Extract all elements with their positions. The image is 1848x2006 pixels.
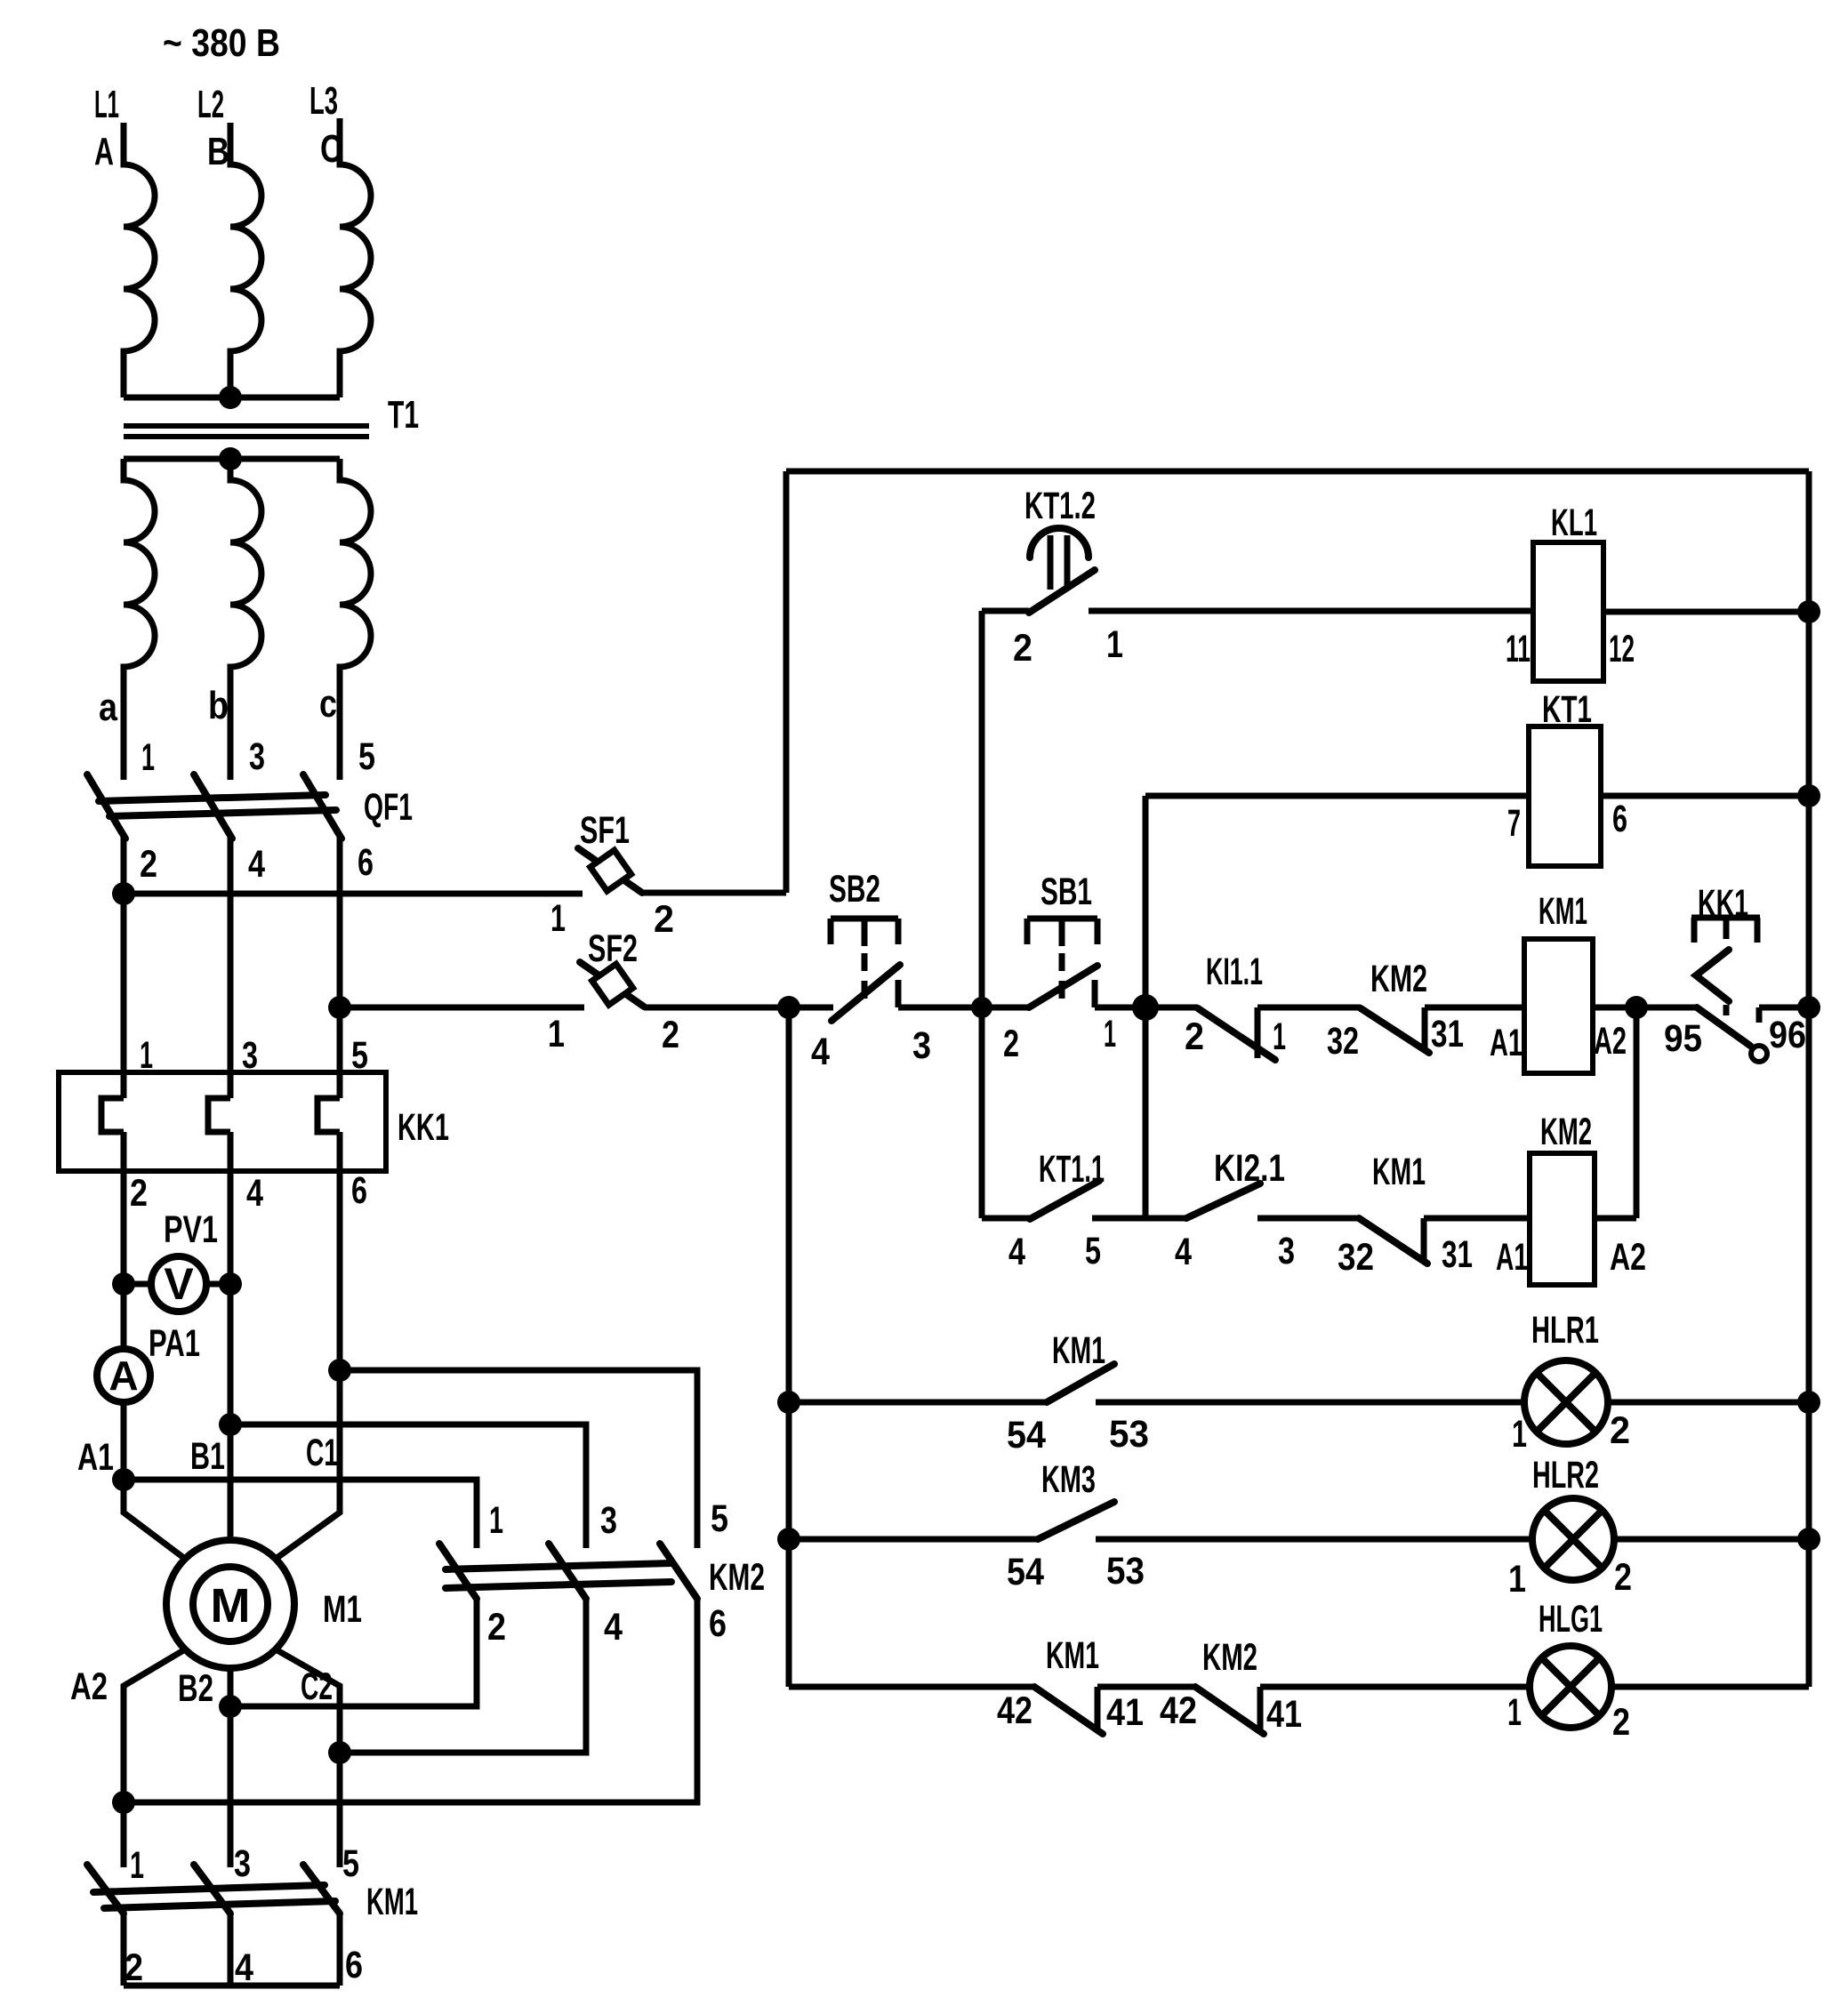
- junction SF2 / lamp rail: [777, 996, 800, 1019]
- svg-text:1: 1: [1512, 1413, 1527, 1456]
- svg-text:L3: L3: [309, 79, 338, 123]
- svg-text:2: 2: [487, 1606, 506, 1649]
- svg-text:2: 2: [1185, 1015, 1204, 1058]
- contactor coil KM1: [1490, 890, 1697, 1073]
- svg-text:3: 3: [234, 1842, 251, 1885]
- wire lamp rail: [786, 1007, 792, 1687]
- node c: [319, 682, 337, 726]
- svg-text:A: A: [94, 130, 114, 173]
- svg-text:54: 54: [1007, 1414, 1046, 1456]
- svg-text:KM2: KM2: [709, 1556, 765, 1599]
- svg-text:A: A: [108, 1352, 138, 1399]
- svg-text:1: 1: [1507, 1691, 1522, 1734]
- svg-text:2: 2: [654, 898, 674, 941]
- svg-text:KM2: KM2: [1540, 1111, 1592, 1153]
- svg-text:KM1: KM1: [1046, 1634, 1099, 1677]
- wire C1 to KM2 pole3 top: [340, 1370, 697, 1548]
- svg-text:6: 6: [351, 1169, 367, 1212]
- node a: [99, 686, 117, 729]
- node b: [208, 684, 229, 727]
- svg-text:A2: A2: [70, 1665, 108, 1708]
- svg-text:L2: L2: [197, 83, 224, 126]
- svg-text:41: 41: [1266, 1693, 1302, 1736]
- pushbutton SB1: [1003, 871, 1198, 1065]
- junction QF1 pole3 / SF2 tap: [328, 996, 351, 1019]
- svg-text:1: 1: [1104, 1013, 1116, 1055]
- switch SF1: [124, 809, 786, 941]
- svg-text:KM2: KM2: [1370, 958, 1427, 1000]
- auxiliary contact KM2 NC (HLG1): [1160, 1636, 1530, 1736]
- svg-text:5: 5: [358, 735, 375, 778]
- svg-text:B2: B2: [178, 1667, 213, 1710]
- junction lamp rail / HLR2 row: [777, 1528, 800, 1551]
- svg-text:KM1: KM1: [1372, 1151, 1426, 1193]
- svg-text:A1: A1: [1490, 1022, 1523, 1064]
- wire phase B QF1 to KK1: [228, 838, 234, 1098]
- svg-text:KM1: KM1: [366, 1881, 418, 1923]
- junction KT1 / right rail: [1797, 784, 1820, 807]
- svg-text:A2: A2: [1610, 1236, 1646, 1279]
- svg-text:95: 95: [1664, 1017, 1702, 1060]
- svg-text:KI1.1: KI1.1: [1206, 951, 1263, 993]
- svg-text:SB2: SB2: [829, 868, 880, 911]
- svg-text:A2: A2: [1594, 1020, 1627, 1063]
- svg-text:C1: C1: [306, 1432, 338, 1474]
- junction SB wire / KT1.2 vertical: [971, 997, 992, 1018]
- transformer T1 secondary winding phase c: [340, 459, 371, 780]
- pushbutton SB2: [811, 868, 1030, 1073]
- svg-text:3: 3: [249, 735, 265, 778]
- svg-text:C2: C2: [301, 1665, 333, 1708]
- svg-text:KM2: KM2: [1202, 1636, 1257, 1679]
- node A2: [70, 1665, 108, 1708]
- wire top bus: [786, 469, 1809, 475]
- junction SB1 / KT1 vertical: [1132, 994, 1159, 1021]
- thermal contact KK1 NC: [1664, 882, 1809, 1062]
- thermal overload relay KK1: [59, 1034, 449, 1215]
- wire right rail: [1806, 471, 1812, 1687]
- svg-text:42: 42: [1160, 1689, 1197, 1732]
- svg-text:4: 4: [604, 1606, 623, 1649]
- svg-text:2: 2: [662, 1014, 679, 1056]
- label 380V supply: [163, 21, 280, 65]
- svg-text:6: 6: [358, 841, 374, 884]
- wire phase C KK1 down: [337, 1132, 343, 1513]
- auxiliary contact KM1 NC (HLG1): [997, 1634, 1195, 1734]
- svg-text:KL1: KL1: [1551, 501, 1597, 544]
- svg-text:6: 6: [709, 1602, 727, 1645]
- svg-text:4: 4: [246, 1172, 263, 1215]
- junction QF1 pole1 / SF1 tap: [112, 882, 135, 905]
- svg-text:2: 2: [130, 1172, 148, 1215]
- svg-text:b: b: [208, 684, 229, 727]
- svg-text:KI2.1: KI2.1: [1214, 1147, 1285, 1190]
- svg-text:4: 4: [811, 1031, 830, 1073]
- svg-text:2: 2: [1003, 1023, 1019, 1065]
- svg-text:5: 5: [1085, 1230, 1101, 1272]
- junction voltmeter / phase B: [219, 1272, 242, 1296]
- motor M1: [166, 1540, 362, 1668]
- ammeter PA1: [97, 1322, 200, 1402]
- svg-text:53: 53: [1106, 1550, 1145, 1593]
- wire KT1 left vertical: [1143, 796, 1149, 1218]
- junction KK1 / right rail: [1797, 996, 1820, 1019]
- svg-text:11: 11: [1506, 628, 1531, 670]
- lamp HLR1: [1512, 1309, 1809, 1456]
- svg-text:a: a: [99, 686, 117, 729]
- svg-text:M: M: [211, 1579, 251, 1633]
- svg-text:L1: L1: [94, 83, 119, 126]
- wire phase A ammeter to motor: [124, 1402, 185, 1559]
- junction A2 / KM2 return: [112, 1791, 135, 1814]
- svg-text:T1: T1: [388, 393, 419, 437]
- junction secondary bus / phase b: [219, 447, 242, 470]
- node A1: [77, 1436, 135, 1491]
- svg-text:2: 2: [1612, 1701, 1630, 1744]
- node C2: [301, 1665, 351, 1764]
- contactor KM1 main contacts: [87, 1842, 418, 1989]
- circuit breaker QF1: [87, 735, 413, 886]
- svg-text:32: 32: [1338, 1236, 1374, 1279]
- wire phase A KK1 to ammeter: [121, 1132, 127, 1346]
- svg-text:1: 1: [1273, 1015, 1286, 1058]
- svg-text:1: 1: [130, 1844, 144, 1887]
- wire KM2 coil riser: [1634, 1007, 1640, 1218]
- svg-text:1: 1: [1106, 623, 1123, 666]
- svg-text:HLR1: HLR1: [1531, 1309, 1599, 1352]
- svg-text:31: 31: [1442, 1233, 1473, 1276]
- svg-text:3: 3: [912, 1024, 931, 1067]
- svg-text:B: B: [207, 130, 229, 173]
- wire motor lower-left stub A2: [124, 1649, 185, 1867]
- svg-text:SF1: SF1: [580, 809, 630, 852]
- node B1: [190, 1413, 242, 1478]
- node C1: [306, 1359, 351, 1474]
- svg-text:c: c: [319, 682, 337, 726]
- svg-text:1: 1: [1508, 1558, 1526, 1601]
- svg-text:96: 96: [1769, 1014, 1806, 1056]
- svg-text:B1: B1: [190, 1435, 225, 1478]
- wire SF2 node to SB2: [789, 1005, 833, 1011]
- wire KT1.2 left vertical: [979, 611, 985, 1218]
- svg-text:HLR2: HLR2: [1532, 1454, 1599, 1496]
- relay coil KL1: [1506, 501, 1809, 681]
- time relay coil KT1: [1145, 688, 1809, 866]
- svg-text:KM3: KM3: [1041, 1458, 1096, 1501]
- svg-text:3: 3: [600, 1499, 617, 1542]
- transformer T1 primary winding phase A: [124, 123, 155, 397]
- svg-text:32: 32: [1327, 1020, 1359, 1063]
- auxiliary contact KM3 NO (HLR2): [789, 1458, 1532, 1593]
- svg-text:5: 5: [342, 1842, 359, 1885]
- relay contact KI2.1: [1175, 1147, 1359, 1273]
- transformer T1 primary winding phase B: [230, 123, 261, 397]
- svg-text:4: 4: [1008, 1231, 1025, 1273]
- svg-text:1: 1: [550, 897, 566, 940]
- time relay contact KT1.2: [982, 485, 1533, 670]
- svg-text:~ 380 В: ~ 380 В: [163, 21, 280, 65]
- svg-text:2: 2: [1614, 1556, 1632, 1599]
- junction HLR1 / right rail: [1797, 1391, 1820, 1414]
- svg-text:7: 7: [1507, 802, 1521, 845]
- wire secondary bus: [124, 456, 340, 462]
- node L1: [94, 83, 119, 173]
- junction voltmeter / phase A: [112, 1272, 135, 1296]
- transformer T1 secondary winding phase b: [230, 459, 261, 780]
- svg-text:2: 2: [140, 843, 157, 886]
- svg-text:12: 12: [1609, 628, 1635, 670]
- wire phase C QF1 to KK1: [337, 838, 343, 1098]
- wire KM2 pole1 bottom to B2: [230, 1599, 477, 1706]
- svg-text:54: 54: [1007, 1551, 1044, 1593]
- svg-text:HLG1: HLG1: [1539, 1598, 1603, 1641]
- svg-text:PA1: PA1: [149, 1322, 200, 1365]
- svg-text:1: 1: [141, 736, 155, 779]
- junction primary bus / phase B: [219, 386, 242, 409]
- switch SF2: [340, 927, 789, 1056]
- svg-text:V: V: [164, 1259, 194, 1309]
- contactor KM2 main contacts: [439, 1497, 765, 1649]
- svg-text:5: 5: [711, 1497, 728, 1540]
- svg-text:QF1: QF1: [364, 786, 413, 829]
- node L3: [309, 79, 342, 171]
- auxiliary contact KM1 NC: [1338, 1151, 1530, 1279]
- wire KM2 pole2 bottom to C2: [340, 1599, 586, 1753]
- wire phase A QF1 to KK1: [121, 838, 127, 1098]
- junction HLR2 / right rail: [1797, 1528, 1820, 1551]
- voltmeter PV1: [124, 1208, 230, 1312]
- svg-text:3: 3: [1278, 1230, 1295, 1272]
- wire SF1 riser to top bus: [783, 471, 790, 893]
- transformer T1 core: [124, 393, 419, 437]
- svg-text:1: 1: [548, 1013, 565, 1055]
- wire motor lower-right stub C2: [276, 1649, 340, 1867]
- wire primary bus: [124, 395, 340, 401]
- svg-text:31: 31: [1431, 1013, 1464, 1055]
- svg-text:1: 1: [489, 1499, 503, 1542]
- svg-text:41: 41: [1106, 1691, 1144, 1734]
- svg-text:PV1: PV1: [164, 1208, 218, 1251]
- relay contact KI1.1: [1185, 951, 1361, 1060]
- svg-text:53: 53: [1109, 1413, 1149, 1456]
- wire A1 to KM2 pole1 top: [124, 1480, 477, 1548]
- svg-text:4: 4: [248, 843, 265, 886]
- svg-text:KK1: KK1: [398, 1106, 449, 1149]
- svg-text:42: 42: [997, 1689, 1032, 1732]
- wire B2 down to KM1: [228, 1706, 234, 1867]
- svg-text:KM1: KM1: [1052, 1329, 1105, 1372]
- junction KM1 coil / KM2 coil riser: [1625, 996, 1648, 1019]
- wire HLG1 row left: [789, 1684, 1034, 1690]
- wire KM2 pole3 bottom to A2: [124, 1599, 697, 1802]
- svg-text:4: 4: [1175, 1231, 1192, 1273]
- node B2: [178, 1667, 242, 1718]
- wire B1 to KM2 pole2 top: [230, 1424, 586, 1548]
- junction KL1 / right rail: [1797, 600, 1820, 623]
- lamp HLR2: [1508, 1454, 1809, 1601]
- wire KM1 star bus: [124, 1914, 340, 1986]
- svg-text:SB1: SB1: [1041, 871, 1092, 913]
- node L2: [197, 83, 229, 173]
- svg-text:2: 2: [1013, 627, 1032, 670]
- auxiliary contact KM2 NC: [1327, 958, 1524, 1063]
- wire phase B KK1 down: [228, 1132, 234, 1537]
- auxiliary contact KM1 NO (HLR1): [789, 1329, 1524, 1456]
- svg-text:KM1: KM1: [1539, 890, 1587, 933]
- wire A2 down to KM1: [121, 1686, 127, 1867]
- wire motor lower-mid stub B2: [228, 1668, 234, 1867]
- time relay contact KT1.1: [982, 1148, 1186, 1273]
- lamp HLG1: [1507, 1598, 1809, 1744]
- wire C1 down to motor: [276, 1370, 340, 1559]
- svg-text:KT1.2: KT1.2: [1024, 485, 1096, 527]
- svg-text:2: 2: [1610, 1409, 1630, 1452]
- svg-text:A1: A1: [77, 1436, 114, 1479]
- svg-text:6: 6: [1612, 798, 1627, 840]
- wire C2 down to KM1: [337, 1753, 343, 1867]
- svg-text:A1: A1: [1496, 1236, 1528, 1279]
- svg-text:6: 6: [345, 1944, 363, 1986]
- transformer T1 primary winding phase C: [340, 118, 371, 397]
- svg-text:M1: M1: [323, 1588, 362, 1631]
- transformer T1 secondary winding phase a: [124, 459, 155, 780]
- contactor coil KM2: [1496, 1111, 1646, 1285]
- junction lamp rail / HLR1 row: [777, 1391, 800, 1414]
